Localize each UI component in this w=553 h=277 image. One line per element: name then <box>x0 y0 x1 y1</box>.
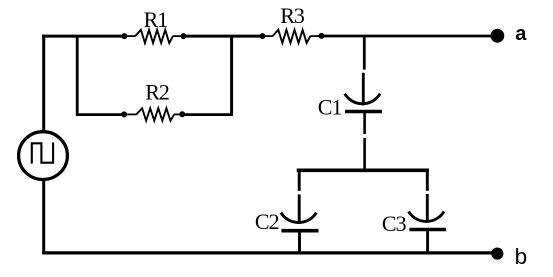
wire: C2 bottom lead <box>298 232 301 254</box>
capacitor C2 flat plate <box>281 229 318 233</box>
wire: left vertical below source <box>42 180 45 254</box>
capacitor C3 curved plate <box>409 212 444 222</box>
wire: R2 horizontal left segment <box>76 113 127 116</box>
wire: T-bar joining C2 and C3 <box>297 169 429 173</box>
svg-text:a: a <box>515 23 527 45</box>
wire: C1 bottom lead upper segment <box>363 113 366 134</box>
wire: R2 horizontal right segment <box>182 113 233 116</box>
capacitor C3 flat plate <box>409 228 446 232</box>
source V1 circle (square-wave source) <box>19 132 68 180</box>
node dot R3 right <box>319 33 325 39</box>
svg-text:C2: C2 <box>255 209 279 234</box>
wire: R3 left lead <box>263 35 273 37</box>
wire: top horizontal left segment <box>42 35 127 38</box>
node dot R1 right <box>180 33 186 39</box>
wire: C1 bottom lead lower segment <box>363 138 366 171</box>
svg-text:R2: R2 <box>145 80 169 105</box>
wire: R2 right lead <box>174 113 183 115</box>
wire: R2 left lead <box>124 113 137 115</box>
wire: bottom horizontal to terminal b <box>42 251 492 254</box>
terminal b dot <box>491 248 503 260</box>
wire: C2 top lead upper segment <box>298 169 301 191</box>
wire: C2 top lead lower segment <box>298 194 301 223</box>
node dot R1 left <box>121 33 127 39</box>
svg-text:C3: C3 <box>382 211 407 236</box>
node dot R2 left <box>121 111 127 117</box>
svg-text:C1: C1 <box>318 94 342 119</box>
wire: right vertical joining R1 and R2 <box>230 36 233 116</box>
capacitor C2 curved plate <box>281 213 316 223</box>
svg-text:b: b <box>515 244 528 269</box>
wire: C1 top lead lower segment <box>362 73 365 106</box>
resistor R3 <box>273 30 311 43</box>
wire: C3 bottom lead <box>426 231 429 254</box>
resistor R1 <box>135 30 173 43</box>
wire: branch vertical at R2 left <box>76 36 79 116</box>
resistor R2 <box>136 108 174 121</box>
wire: top horizontal to terminal a <box>321 35 491 38</box>
wire: C3 top lead upper segment <box>426 169 429 191</box>
wire: top horizontal between R1 and R3 <box>183 35 264 38</box>
wire: R1 right lead <box>173 35 184 37</box>
node dot R3 left <box>260 33 266 39</box>
terminal a dot <box>491 29 505 43</box>
wire: C3 top lead lower segment <box>426 194 429 223</box>
wire: C1 top lead upper segment <box>363 36 366 70</box>
wire: R1 left lead <box>124 35 135 37</box>
source V1 square-wave glyph <box>32 142 53 163</box>
capacitor C1 flat plate <box>345 110 382 114</box>
svg-text:R1: R1 <box>144 7 168 32</box>
capacitor C1 curved plate <box>345 94 380 104</box>
node dot R2 right <box>179 111 185 117</box>
wire: R3 right lead <box>310 35 322 37</box>
svg-text:R3: R3 <box>280 3 305 28</box>
wire: left vertical above source <box>42 35 45 131</box>
